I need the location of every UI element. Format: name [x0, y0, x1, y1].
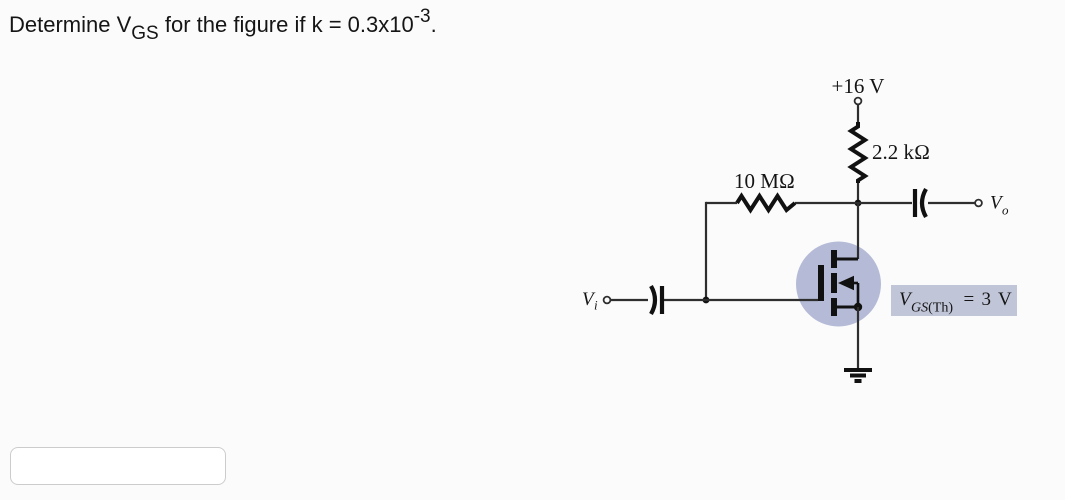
wire gate node to gate	[706, 299, 818, 301]
label Vi	[582, 289, 598, 313]
transistor Q1 substrate arrow	[838, 276, 858, 307]
question title	[9, 12, 437, 38]
svg-text:2.2 kΩ: 2.2 kΩ	[872, 140, 930, 164]
wire C1 to gate node	[664, 299, 706, 301]
terminal Vo	[975, 200, 982, 207]
terminal +16V	[855, 98, 862, 105]
value label 2.2 kOhm	[872, 140, 930, 164]
wire C2 to Vo terminal	[928, 202, 975, 204]
node drain junction dot	[855, 200, 862, 207]
ground	[844, 370, 872, 381]
wire R1 to drain node	[857, 183, 859, 203]
capacitor C2 output	[915, 189, 926, 217]
transistor Q1 channel middle segment	[831, 273, 837, 293]
wire drain node horizontal	[795, 202, 912, 204]
wire supply to R1	[857, 105, 859, 124]
transistor Q1 channel bottom segment	[831, 298, 837, 316]
svg-text:10 MΩ: 10 MΩ	[734, 169, 795, 193]
svg-text:i: i	[594, 298, 598, 313]
terminal Vi	[604, 297, 611, 304]
wire left lead of R2	[706, 202, 737, 204]
transistor Q1 gate bar	[818, 265, 824, 301]
node gate junction dot	[703, 297, 710, 304]
svg-text:o: o	[1002, 203, 1009, 218]
label Vo	[990, 193, 1009, 218]
wire feedback vertical	[705, 202, 707, 300]
node source junction dot	[854, 303, 862, 311]
answer input box	[10, 447, 226, 485]
resistor R1 2.2k zigzag	[851, 122, 865, 183]
capacitor C1 input	[651, 286, 662, 314]
wire drain vertical into Q1	[857, 203, 859, 259]
wire source to ground	[857, 307, 859, 368]
svg-text:3: 3	[982, 289, 992, 310]
transistor Q1 channel top segment	[831, 250, 837, 268]
svg-text:V: V	[998, 289, 1012, 310]
transistor body circle (background)	[796, 242, 881, 327]
label +16 V	[832, 74, 885, 98]
svg-text:+16 V: +16 V	[832, 74, 885, 98]
svg-text:GS(Th): GS(Th)	[911, 301, 953, 316]
value label 10 MOhm	[734, 169, 795, 193]
callout box VGS(Th) = 3 V	[891, 285, 1017, 316]
resistor R2 10M zigzag	[737, 196, 795, 210]
svg-text:=: =	[964, 289, 975, 310]
wire Vi to C1	[611, 299, 649, 301]
transistor Q1 source lead	[837, 306, 858, 309]
transistor Q1 drain lead	[837, 258, 858, 261]
